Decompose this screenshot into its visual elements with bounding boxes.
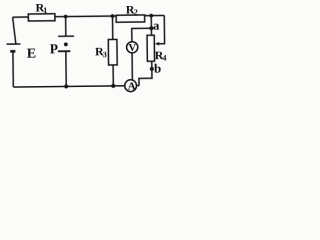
svg-text:E: E	[27, 46, 37, 61]
svg-text:A: A	[128, 81, 136, 93]
svg-text:a: a	[153, 18, 160, 33]
svg-text:1: 1	[43, 6, 47, 15]
svg-text:V: V	[128, 43, 136, 54]
svg-text:3: 3	[103, 50, 107, 59]
svg-text:2: 2	[134, 8, 138, 17]
svg-text:P: P	[50, 41, 58, 56]
svg-text:4: 4	[162, 54, 166, 63]
svg-text:b: b	[154, 61, 161, 76]
